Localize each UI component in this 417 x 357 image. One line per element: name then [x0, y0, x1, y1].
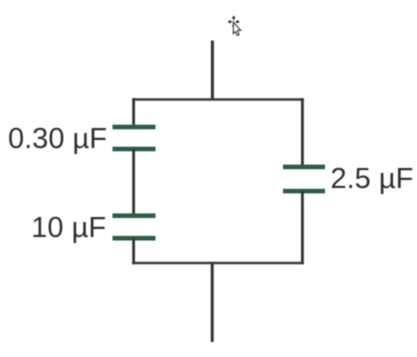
svg-text:0.30 µF: 0.30 µF: [8, 123, 107, 155]
svg-text:10 µF: 10 µF: [31, 212, 106, 244]
cursor move cross: right arrow: [235, 20, 240, 24]
wire: right branch lower segment: [301, 191, 304, 264]
capacitor C1 (0.30 uF) bottom plate: [113, 147, 156, 152]
wire: bottom horizontal: [132, 262, 304, 265]
cursor arrow pointer: [233, 22, 240, 35]
wire: right branch upper segment: [301, 98, 304, 167]
wire: left branch middle segment: [132, 149, 135, 216]
cursor move cross: left arrow: [228, 20, 233, 24]
wire: top lead: [211, 41, 214, 101]
wire: bottom lead: [211, 263, 214, 342]
capacitor C3 (2.5 uF) bottom plate: [283, 189, 325, 194]
mouse cursor (move pointer): [228, 16, 241, 36]
wire: left branch lower segment: [132, 238, 135, 264]
wire: left branch upper segment: [132, 98, 135, 127]
capacitor C2 (10 uF) bottom plate: [113, 236, 156, 241]
cursor move cross: up arrow: [232, 16, 236, 21]
capacitor C1 (0.30 uF) top plate: [113, 125, 156, 130]
capacitor C2 (10 uF) top plate: [113, 213, 156, 218]
wire: top horizontal: [132, 98, 304, 101]
capacitor C3 (2.5 uF) top plate: [283, 165, 325, 170]
cursor move cross: down arrow: [232, 23, 236, 28]
svg-text:2.5 µF: 2.5 µF: [331, 163, 414, 195]
